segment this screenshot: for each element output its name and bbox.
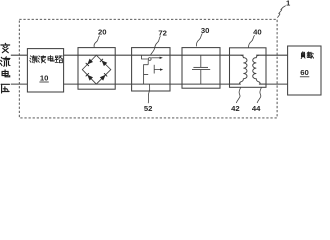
wire: bottom rail from AC input to transformer bbox=[11, 83, 241, 85]
svg-text:20: 20 bbox=[98, 28, 107, 37]
transformer block 40 bbox=[230, 48, 267, 88]
capacitor plates bbox=[193, 66, 208, 68]
wire: winding 44 bottom stub bbox=[260, 83, 266, 85]
wire: bottom rail from transformer to load bbox=[259, 83, 288, 85]
transistor 52 gate bracket bbox=[144, 65, 149, 75]
svg-text:42: 42 bbox=[231, 104, 240, 113]
svg-text:60: 60 bbox=[300, 68, 309, 77]
wire: top rail from AC input to transformer bbox=[11, 54, 244, 56]
svg-text:44: 44 bbox=[252, 104, 261, 113]
control node circle 72 bbox=[148, 58, 151, 61]
label 72 leader bbox=[151, 36, 161, 55]
diode (top-right arm) bbox=[102, 60, 108, 66]
bridge rectifier block 20 bbox=[78, 48, 115, 90]
svg-text:1: 1 bbox=[286, 0, 291, 7]
diode (bottom-left arm) bbox=[87, 75, 93, 81]
dashed enclosure box 1 bbox=[19, 19, 277, 118]
label 30 leader bbox=[196, 33, 202, 46]
svg-text:10: 10 bbox=[40, 74, 49, 83]
svg-text:40: 40 bbox=[253, 27, 262, 36]
transistor 52 output arrow (lower) bbox=[154, 69, 161, 71]
block title 负载 (load) bbox=[301, 52, 305, 59]
control signal arrow (upper) bbox=[151, 57, 160, 59]
label 42 leader bbox=[236, 87, 240, 103]
svg-text:72: 72 bbox=[158, 29, 167, 38]
diode (bottom-right arm) bbox=[100, 75, 106, 81]
primary winding 42 bbox=[240, 55, 247, 84]
transistor 52 channel bar bbox=[153, 65, 155, 74]
wire: winding 42 bottom stub bbox=[230, 83, 240, 85]
label 52 leader bbox=[148, 84, 149, 103]
AC input label 交流电压 (vertical) bbox=[1, 43, 10, 52]
block title 滤波电路 (filter circuit) bbox=[30, 56, 38, 63]
label 44 leader bbox=[257, 87, 261, 103]
bridge diamond bbox=[82, 55, 111, 84]
capacitor C stem top bbox=[200, 55, 202, 67]
secondary winding 44 bbox=[253, 55, 261, 84]
wire: top rail from transformer to load bbox=[256, 54, 287, 56]
load block 60 (负载) bbox=[288, 46, 321, 95]
svg-text:30: 30 bbox=[201, 26, 210, 35]
switching circuit block (transistor 52) bbox=[132, 48, 170, 91]
capacitor block 30 bbox=[182, 48, 220, 89]
svg-text:52: 52 bbox=[144, 104, 153, 113]
capacitor stem bottom bbox=[200, 70, 202, 85]
diode (top-left arm) bbox=[87, 59, 93, 65]
label 40 leader bbox=[249, 35, 255, 47]
label 1 leader bbox=[277, 6, 285, 18]
link circle to gate bracket bbox=[147, 60, 149, 64]
transistor 52 source leg to bottom rail bbox=[143, 75, 145, 85]
label 20 leader bbox=[94, 36, 100, 48]
transistor 52 drain stub from top rail bbox=[142, 55, 149, 59]
filter circuit block 10 (滤波电路) bbox=[27, 49, 63, 92]
